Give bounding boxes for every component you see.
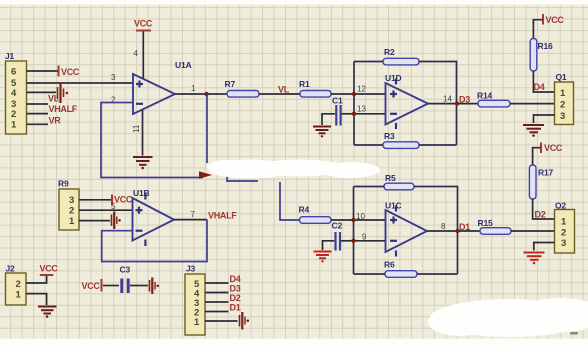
wire U1C input vertical bbox=[353, 187, 355, 275]
svg-text:12: 12 bbox=[357, 85, 366, 94]
wire Q1 pin3 to ground bbox=[534, 115, 555, 123]
connector J2 bbox=[6, 273, 27, 305]
svg-text:4: 4 bbox=[11, 88, 17, 99]
wire R9 pin3 to VCC bbox=[79, 199, 111, 201]
svg-text:13: 13 bbox=[357, 105, 366, 114]
svg-text:3: 3 bbox=[111, 73, 116, 82]
svg-text:U1A: U1A bbox=[175, 60, 191, 70]
wire J1 pin5 to U1A pin3 bbox=[27, 82, 134, 84]
wire J3 pin3 bbox=[205, 301, 229, 303]
svg-text:9: 9 bbox=[362, 233, 367, 242]
op-amp U1D bbox=[386, 83, 429, 125]
svg-text:4: 4 bbox=[134, 49, 139, 58]
resistor R14 bbox=[478, 100, 510, 107]
white margin bottom bbox=[0, 339, 588, 346]
svg-text:2: 2 bbox=[16, 279, 21, 290]
power symbol at J3 pin1 bbox=[240, 312, 250, 330]
svg-text:U1D: U1D bbox=[385, 73, 401, 83]
svg-text:J3: J3 bbox=[186, 264, 196, 274]
wire J1 pin4 bbox=[27, 91, 57, 93]
svg-text:D4: D4 bbox=[230, 274, 241, 284]
wire J3 pin2 bbox=[205, 311, 229, 313]
power symbol at C3 right bbox=[150, 278, 160, 295]
wire U1D pin13 bbox=[354, 113, 385, 115]
svg-text:1: 1 bbox=[16, 290, 22, 301]
wire R6 left lead bbox=[354, 273, 386, 275]
wire U1A ground stem bbox=[142, 110, 144, 156]
wire R1 to U1D pin12 node bbox=[331, 93, 354, 95]
wire J3 pin5 bbox=[205, 282, 229, 284]
connector R9 pin numbers bbox=[69, 195, 75, 227]
op-amp U1A minus bbox=[136, 103, 143, 105]
power symbol at R9 pin1 bbox=[112, 212, 121, 230]
svg-text:D3: D3 bbox=[230, 284, 241, 294]
svg-text:U1B: U1B bbox=[133, 188, 149, 198]
svg-text:1: 1 bbox=[194, 317, 200, 328]
svg-text:D4: D4 bbox=[534, 82, 545, 92]
wire J1 pin1 bbox=[27, 123, 49, 125]
arrow junction marker bbox=[199, 171, 212, 178]
svg-text:VCC: VCC bbox=[82, 281, 101, 291]
svg-text:3: 3 bbox=[69, 195, 74, 206]
svg-text:R16: R16 bbox=[538, 41, 553, 51]
op-amp U1B power ticks bbox=[144, 194, 146, 247]
svg-text:R1: R1 bbox=[299, 79, 310, 89]
wire R15 to Q2 pin2 bbox=[511, 230, 555, 232]
resistor R7 bbox=[227, 91, 259, 98]
power VCC at J2 bbox=[40, 264, 59, 276]
svg-text:VR: VR bbox=[49, 116, 62, 126]
op-amp U1C bbox=[386, 210, 428, 252]
power VCC above R16 bbox=[543, 14, 564, 25]
svg-text:1: 1 bbox=[560, 88, 566, 99]
junction U1C pin10 bbox=[351, 218, 355, 222]
svg-text:J2: J2 bbox=[6, 264, 16, 274]
svg-text:VHALF: VHALF bbox=[49, 104, 78, 114]
connector J1 pin numbers bbox=[11, 67, 17, 131]
wire R5 left lead bbox=[354, 186, 385, 188]
svg-text:1: 1 bbox=[69, 216, 75, 227]
ground at Q2 bbox=[524, 253, 545, 265]
ground at C1 bbox=[313, 127, 331, 138]
wire C1 right to pin13 node bbox=[342, 113, 354, 115]
power bar at C3 left bbox=[101, 279, 103, 292]
connector J1 bbox=[6, 61, 27, 134]
svg-text:11: 11 bbox=[132, 124, 141, 133]
svg-text:2: 2 bbox=[560, 100, 565, 111]
svg-text:VCC: VCC bbox=[114, 195, 133, 205]
wire U1D pin12 bbox=[354, 93, 385, 95]
svg-text:VCC: VCC bbox=[546, 15, 565, 25]
op-amp U1D power ticks bbox=[395, 79, 397, 130]
connector R9 bbox=[59, 189, 79, 230]
wire J3 pin4 bbox=[205, 292, 229, 294]
svg-text:C3: C3 bbox=[120, 265, 131, 275]
capacitor C1 bbox=[336, 105, 340, 126]
resistor R4 bbox=[300, 217, 332, 224]
resistor R6 bbox=[385, 271, 417, 278]
ground at J2 bbox=[38, 307, 57, 318]
op-amp U1B plus bbox=[136, 207, 143, 214]
wire J1 pin3 bbox=[27, 103, 49, 105]
power VCC at J1 pin6 bbox=[59, 66, 80, 78]
power VCC above U1A bbox=[134, 19, 153, 31]
resistor R16 bbox=[530, 39, 537, 72]
svg-text:D2: D2 bbox=[230, 293, 241, 303]
wire U1A output bbox=[175, 93, 227, 95]
wire C2 right to pin9 node bbox=[341, 240, 354, 242]
wire U1C output bbox=[427, 230, 480, 232]
wire U1D output bbox=[428, 103, 478, 105]
wire R2 right lead bbox=[419, 62, 457, 146]
connector J3 pin numbers bbox=[194, 279, 200, 328]
svg-text:2: 2 bbox=[69, 206, 74, 217]
capacitor C3 bbox=[122, 279, 128, 294]
svg-text:VL: VL bbox=[278, 85, 290, 95]
power VCC at U1B bbox=[112, 195, 133, 206]
junction U1C pin9 bbox=[351, 239, 355, 243]
svg-text:D1: D1 bbox=[230, 303, 241, 313]
svg-text:6: 6 bbox=[11, 67, 16, 78]
wire loop node to R4 bbox=[280, 182, 300, 220]
svg-text:10: 10 bbox=[356, 212, 365, 221]
svg-text:R14: R14 bbox=[477, 91, 492, 101]
op-amp U1C minus bbox=[390, 240, 397, 242]
connector J2 pin numbers bbox=[16, 279, 22, 301]
white margin top bbox=[0, 0, 588, 5]
connector Q1 pin numbers bbox=[560, 88, 566, 122]
svg-text:R17: R17 bbox=[538, 168, 553, 178]
junction U1C output bbox=[455, 229, 459, 233]
junction U1A output node bbox=[204, 92, 208, 96]
svg-text:8: 8 bbox=[441, 222, 446, 231]
resistor R17 bbox=[529, 165, 536, 199]
svg-text:C1: C1 bbox=[332, 96, 343, 106]
wire VCC to R17 bbox=[533, 148, 541, 165]
capacitor C2 bbox=[336, 232, 341, 251]
wire VCC to R16 bbox=[533, 20, 542, 39]
wire R14 to Q1 pin2 bbox=[510, 103, 555, 105]
svg-text:R2: R2 bbox=[384, 47, 395, 57]
svg-text:C2: C2 bbox=[332, 221, 343, 231]
ground below U1A bbox=[133, 157, 153, 169]
op-amp U1C plus bbox=[390, 217, 397, 224]
junction U1D pin12 bbox=[352, 92, 356, 96]
wire U1A output down to feedback node bbox=[206, 94, 208, 163]
svg-text:VCC: VCC bbox=[544, 143, 563, 153]
wire R7 to R1 bbox=[259, 93, 300, 95]
svg-text:VL: VL bbox=[48, 94, 60, 104]
op-amp U1D plus bbox=[390, 91, 397, 98]
svg-text:R7: R7 bbox=[225, 79, 236, 89]
svg-text:1: 1 bbox=[11, 120, 17, 131]
svg-text:R15: R15 bbox=[478, 218, 493, 228]
wire J1 pin2 bbox=[27, 113, 49, 115]
junction U1D pin13 bbox=[352, 112, 356, 116]
wire stub below smudge bbox=[227, 175, 258, 181]
wire R6 right lead bbox=[417, 273, 458, 275]
wire VCC bar to C3 bbox=[103, 285, 119, 287]
connector Q1 bbox=[555, 82, 574, 125]
op-amp U1D minus bbox=[390, 113, 397, 115]
resistor R2 bbox=[383, 58, 419, 65]
svg-text:1: 1 bbox=[561, 217, 567, 228]
svg-text:D2: D2 bbox=[535, 210, 546, 220]
wire C2 left to ground bbox=[323, 241, 335, 250]
svg-text:2: 2 bbox=[561, 228, 566, 239]
svg-text:1: 1 bbox=[191, 84, 196, 93]
svg-text:VCC: VCC bbox=[40, 264, 59, 274]
svg-text:U1C: U1C bbox=[385, 201, 401, 211]
white smudge upper bbox=[207, 160, 380, 179]
wire R2 left lead bbox=[354, 61, 383, 63]
ground at C2 bbox=[314, 252, 332, 263]
wire Q2 pin3 to ground bbox=[534, 243, 555, 251]
wire R3 right lead bbox=[419, 144, 457, 146]
wire U1B feedback loop bbox=[102, 220, 207, 262]
op-amp U1B bbox=[133, 198, 175, 241]
svg-text:VCC: VCC bbox=[61, 67, 80, 77]
resistor R1 bbox=[300, 91, 331, 98]
wire R5 right lead bbox=[414, 187, 458, 275]
wire U1C pin9 bbox=[354, 240, 386, 242]
svg-text:VHALF: VHALF bbox=[208, 211, 237, 221]
wire VCC stem to U1A pin4 bbox=[142, 32, 144, 80]
wire J2 pin1 to ground bbox=[26, 294, 47, 305]
svg-text:R6: R6 bbox=[384, 260, 395, 270]
wire U1C pin10 bbox=[354, 219, 386, 221]
speck in smudge bbox=[570, 332, 578, 335]
svg-text:14: 14 bbox=[443, 95, 452, 104]
op-amp U1A plus bbox=[136, 81, 143, 88]
svg-text:J1: J1 bbox=[5, 51, 15, 61]
svg-text:D3: D3 bbox=[459, 95, 470, 105]
power symbol VL at J1 pin4 bbox=[58, 83, 69, 104]
svg-text:R3: R3 bbox=[384, 131, 395, 141]
wire J3 pin1 bbox=[205, 320, 238, 322]
svg-text:Q1: Q1 bbox=[556, 72, 567, 82]
wire U1B output bbox=[174, 219, 207, 221]
connector Q2 pin numbers bbox=[561, 217, 567, 250]
white smudge bottom right bbox=[428, 298, 588, 337]
wire J1 pin6 to VCC bbox=[27, 70, 58, 72]
junction U1D output bbox=[455, 101, 459, 105]
wire R4 to U1C pin10 node bbox=[331, 219, 354, 221]
connector Q2 bbox=[555, 210, 575, 254]
svg-text:R5: R5 bbox=[385, 173, 396, 183]
svg-text:3: 3 bbox=[560, 111, 565, 122]
wire U1A pin2 feedback loop bbox=[101, 103, 203, 178]
ground at Q1 bbox=[523, 125, 544, 137]
wire R3 left lead bbox=[354, 144, 383, 146]
wire R9 pin2 to U1B plus bbox=[79, 209, 133, 211]
svg-text:7: 7 bbox=[191, 210, 196, 219]
resistor R15 bbox=[480, 228, 511, 235]
resistor R3 bbox=[383, 142, 419, 149]
op-amp U1A bbox=[133, 74, 175, 114]
svg-text:VCC: VCC bbox=[134, 19, 153, 29]
svg-text:D1: D1 bbox=[459, 222, 470, 232]
svg-text:R9: R9 bbox=[58, 179, 69, 189]
wire R16 to Q1 pin1 bbox=[533, 71, 554, 92]
wire R17 to Q2 pin1 bbox=[533, 199, 555, 219]
wire U1D input vertical bbox=[353, 62, 355, 146]
svg-text:2: 2 bbox=[11, 109, 16, 120]
wire C3 to ground symbol bbox=[130, 285, 148, 287]
wire R9 pin1 bbox=[79, 220, 110, 222]
power VCC above R17 bbox=[541, 143, 563, 154]
wire C1 left to ground bbox=[322, 114, 335, 125]
op-amp U1C power ticks bbox=[395, 206, 397, 257]
resistor R5 bbox=[384, 183, 414, 190]
wire J2 pin2 to VCC bbox=[26, 276, 47, 283]
op-amp U1B minus bbox=[136, 230, 143, 232]
connector J3 bbox=[185, 274, 205, 335]
svg-text:3: 3 bbox=[561, 238, 566, 249]
svg-text:R4: R4 bbox=[299, 205, 310, 215]
